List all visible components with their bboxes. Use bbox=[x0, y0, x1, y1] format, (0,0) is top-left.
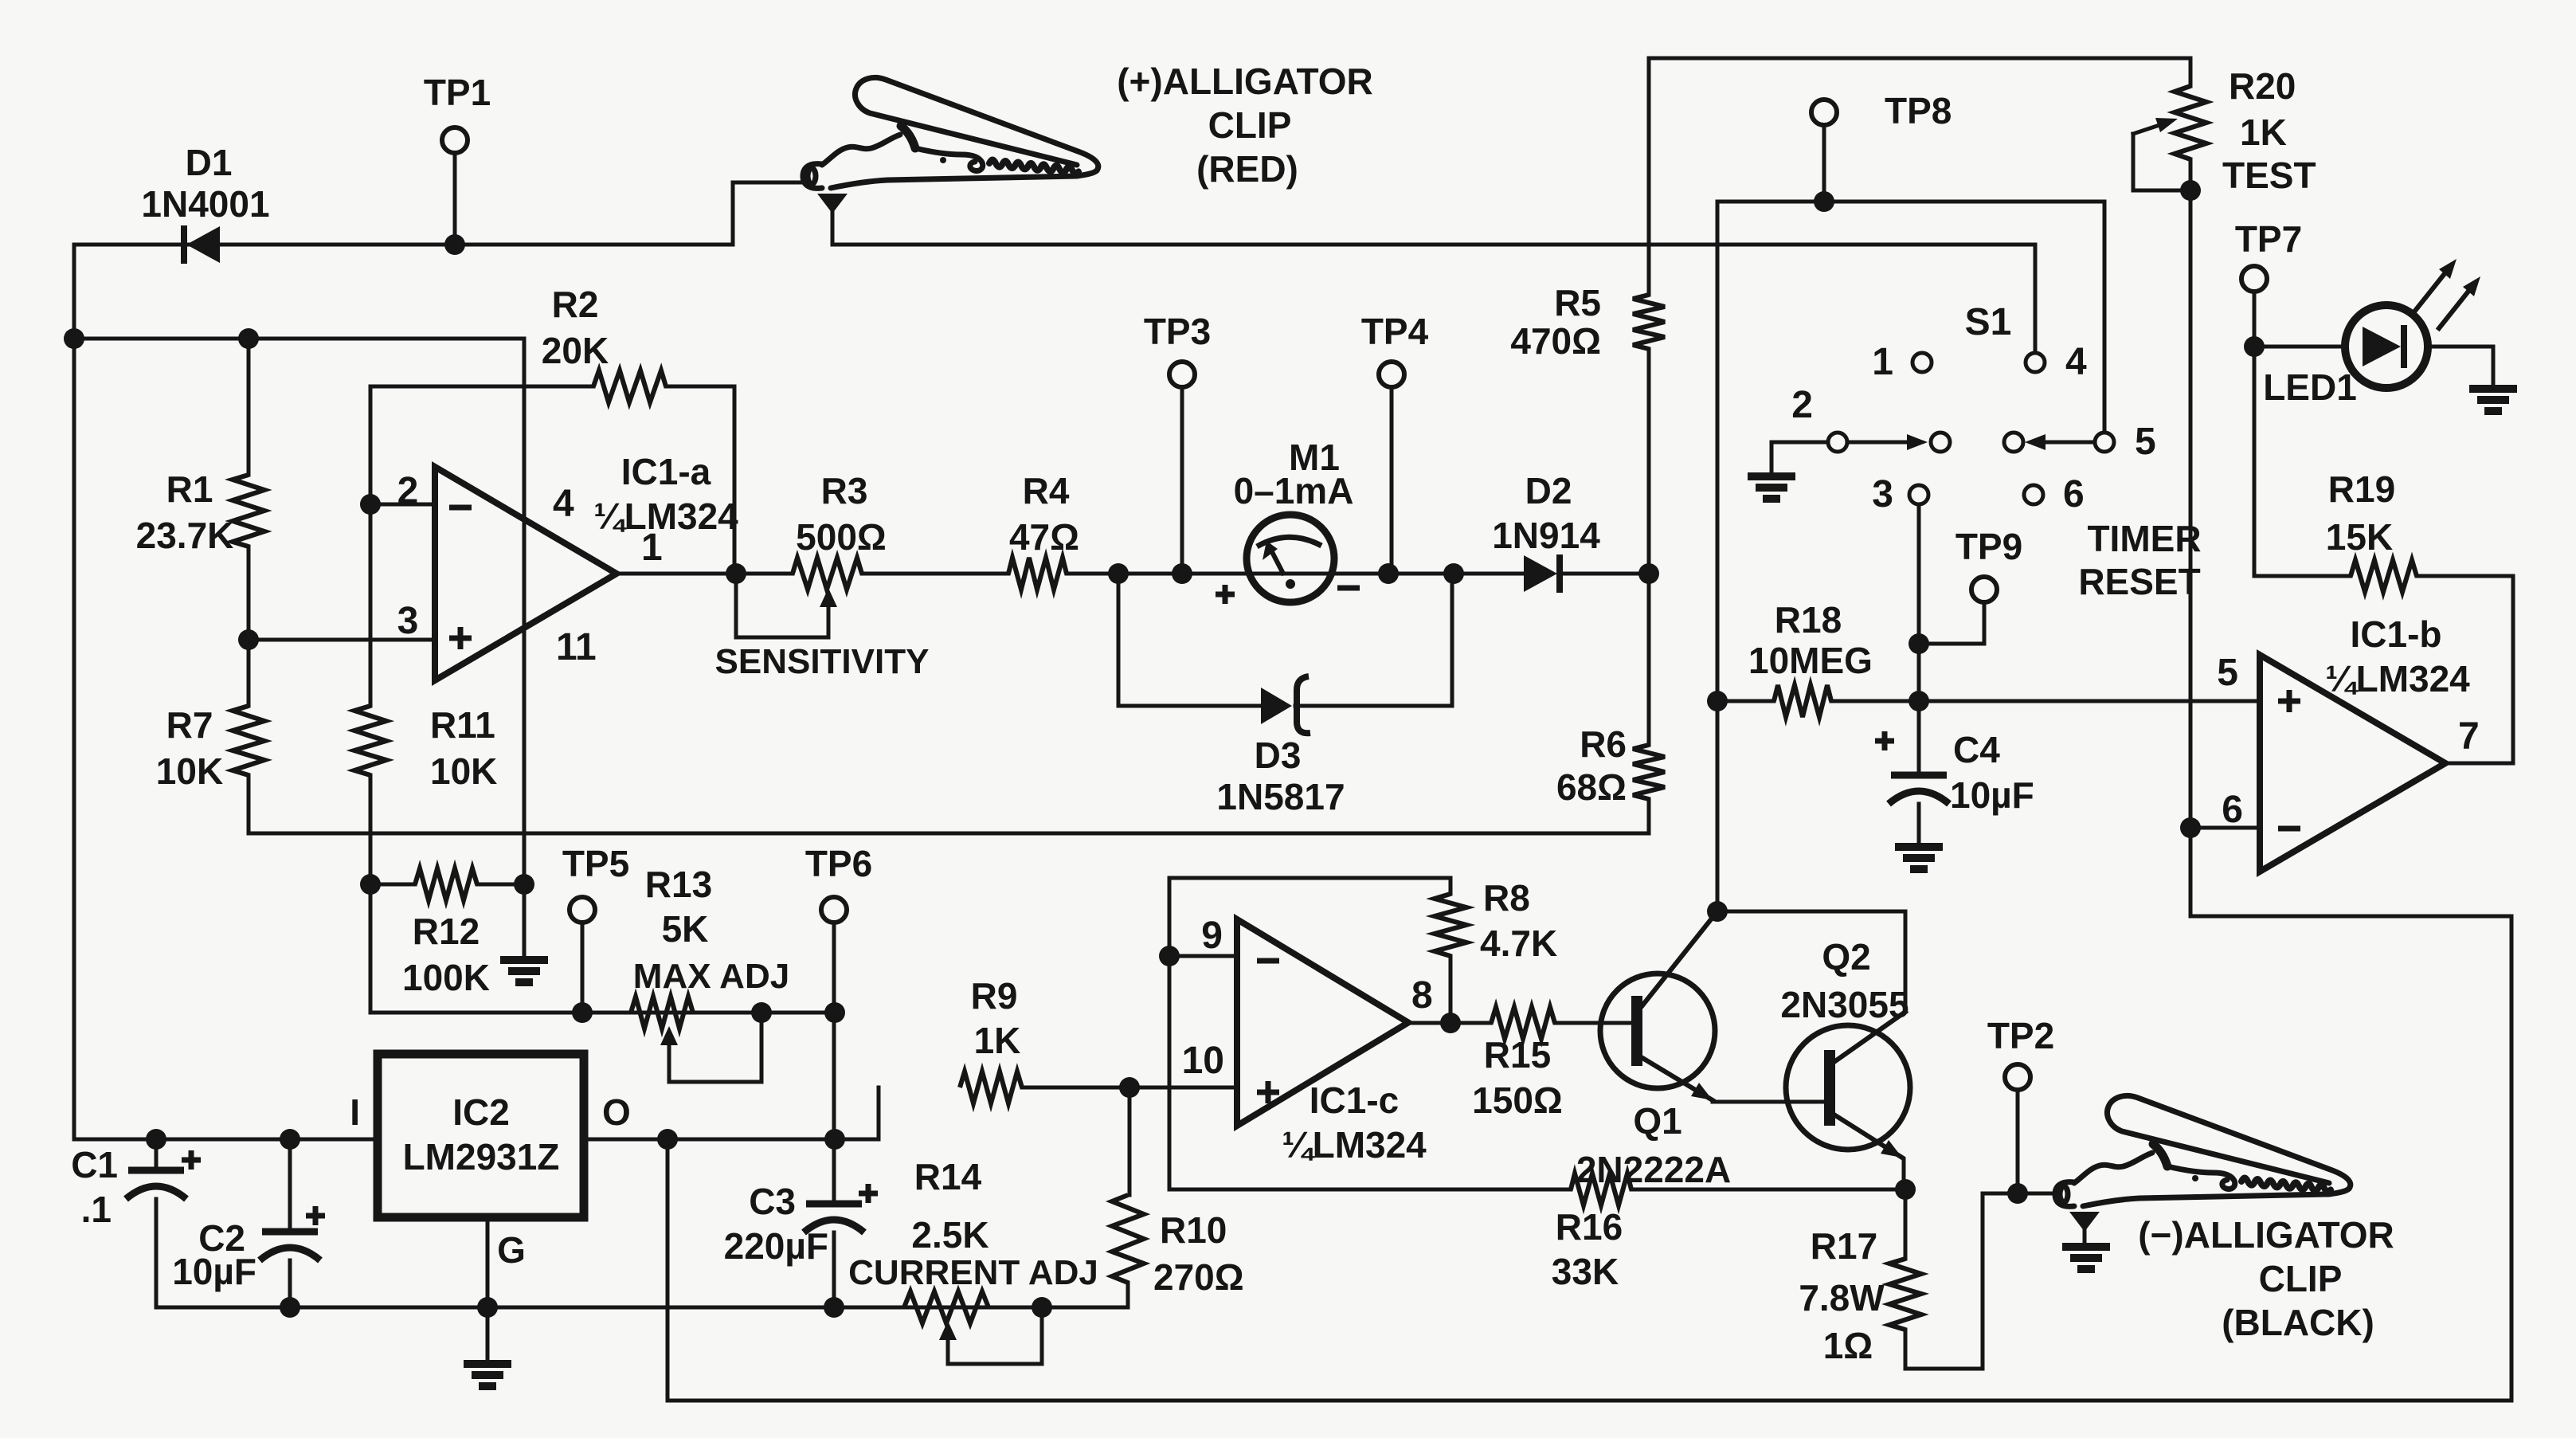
switch S1 contact 2 bbox=[1828, 433, 1847, 452]
svg-text:IC2: IC2 bbox=[452, 1091, 510, 1133]
svg-text:23.7K: 23.7K bbox=[136, 515, 234, 556]
wire TP9 lead bbox=[1919, 602, 1984, 644]
resistor R5 bbox=[1633, 295, 1665, 349]
wire IC2 output bbox=[584, 1087, 879, 1139]
resistor R15 bbox=[1491, 1007, 1555, 1039]
junction Q1 Q2 collectors bbox=[1707, 901, 1728, 922]
svg-text:100K: 100K bbox=[402, 957, 490, 998]
svg-text:S1: S1 bbox=[1965, 301, 2012, 343]
junction C3 bottom bbox=[824, 1297, 844, 1318]
wire TP2 row to clip bbox=[1983, 1192, 2057, 1196]
svg-text:7.8W: 7.8W bbox=[1799, 1277, 1885, 1318]
IC1-b inverting mark bbox=[2278, 826, 2300, 832]
svg-text:270Ω: 270Ω bbox=[1153, 1256, 1244, 1298]
resistor R2 bbox=[593, 370, 666, 402]
resistor R16 bbox=[1571, 1174, 1631, 1205]
svg-text:TP3: TP3 bbox=[1144, 311, 1211, 352]
wire R11 to R12 row bbox=[369, 775, 373, 1013]
svg-text:C1: C1 bbox=[71, 1144, 118, 1185]
svg-text:IC1-c: IC1-c bbox=[1310, 1079, 1399, 1121]
wire R10 bottom bbox=[1126, 1283, 1130, 1307]
wire S1 arm 5 bbox=[2039, 441, 2094, 445]
svg-text:R19: R19 bbox=[2328, 468, 2395, 510]
junction pin9 node bbox=[1159, 946, 1180, 966]
junction TP8 node bbox=[1814, 191, 1834, 212]
junction Q2 emitter R16 R17 bbox=[1895, 1179, 1916, 1200]
svg-text:CURRENT ADJ: CURRENT ADJ bbox=[848, 1253, 1098, 1292]
wire R13 wiper loop bbox=[669, 1013, 761, 1082]
wire R12 left bbox=[370, 883, 415, 887]
wire R14 wiper stem bbox=[946, 1340, 950, 1364]
wire clip to ground bbox=[2083, 1227, 2087, 1247]
junction TP2 node bbox=[2007, 1183, 2028, 1204]
wire R1 to R7 bbox=[247, 547, 251, 706]
C1 plus bbox=[182, 1150, 201, 1170]
resistor R4 bbox=[1008, 558, 1067, 590]
svg-text:10µF: 10µF bbox=[1950, 774, 2034, 816]
svg-text:R6: R6 bbox=[1580, 723, 1627, 765]
svg-text:TP5: TP5 bbox=[562, 843, 629, 884]
svg-text:R14: R14 bbox=[914, 1156, 982, 1197]
IC1-c non-inverting mark bbox=[1257, 1081, 1279, 1103]
wire top supply rail left bbox=[74, 182, 801, 245]
wire ground rail bbox=[156, 1306, 1128, 1310]
junction R13 wiper bbox=[751, 1002, 772, 1023]
wire C1 bottom lead bbox=[155, 1199, 159, 1307]
Q2 emitter arrow bbox=[1881, 1140, 1902, 1158]
svg-text:9: 9 bbox=[1201, 915, 1223, 957]
junction MAX ADJ to TP6 line bbox=[824, 1002, 845, 1023]
wire R18 to IC1-b pin5 bbox=[1831, 699, 2260, 703]
test point TP2 bbox=[2005, 1064, 2030, 1090]
capacitor C3 bbox=[804, 1204, 864, 1232]
svg-text:150Ω: 150Ω bbox=[1472, 1079, 1563, 1121]
svg-text:R2: R2 bbox=[552, 284, 599, 325]
R20 wiper arrowhead bbox=[2155, 118, 2178, 132]
wire R20 wiper loop bbox=[2133, 134, 2190, 190]
svg-text:8: 8 bbox=[1411, 974, 1433, 1017]
switch S1 contact 5 bbox=[2095, 433, 2114, 452]
diode D3 (schottky) bbox=[1261, 688, 1292, 724]
wire top rail to S1 pin 4 bbox=[832, 245, 2035, 352]
wire R17 top bbox=[1904, 1189, 1908, 1259]
wire to R1 bbox=[247, 339, 251, 475]
wire V+ rail / pin4-11 line bbox=[74, 339, 524, 956]
junction left rail bbox=[64, 328, 84, 349]
wire R16 to Q2 emitter bbox=[1631, 1188, 1905, 1192]
svg-text:4.7K: 4.7K bbox=[1480, 923, 1557, 964]
svg-text:1N914: 1N914 bbox=[1492, 515, 1600, 556]
LED arrowhead 1 bbox=[2439, 259, 2457, 279]
wire R3 wiper stem bbox=[827, 607, 831, 637]
svg-text:47Ω: 47Ω bbox=[1009, 516, 1079, 558]
wire R20 bottom lead bbox=[2189, 159, 2193, 190]
svg-text:RESET: RESET bbox=[2078, 561, 2200, 602]
svg-text:33K: 33K bbox=[1552, 1251, 1619, 1292]
wire R4 to D2 bbox=[1067, 572, 1524, 576]
potentiometer R20 bbox=[2175, 86, 2206, 159]
wire TP3 lead bbox=[1180, 387, 1184, 574]
svg-text:1N4001: 1N4001 bbox=[141, 183, 269, 225]
wire IC1-c feedback top bbox=[1169, 878, 1450, 956]
wire D3 loop left bbox=[1118, 574, 1261, 706]
transistor Q2 bbox=[1786, 1025, 1910, 1150]
wire R3 to R4 bbox=[862, 572, 1008, 576]
svg-text:10µF: 10µF bbox=[172, 1251, 256, 1292]
wire R14 wiper loop bbox=[948, 1307, 1042, 1364]
wire pin9 down to R16 row bbox=[1168, 956, 1172, 1189]
wire S1 pin3 down to C4 bbox=[1917, 505, 1921, 775]
svg-text:TP2: TP2 bbox=[1987, 1015, 2054, 1056]
wire S1 pin2 to ground bbox=[1771, 442, 1827, 476]
diode D2 bbox=[1524, 555, 1557, 592]
svg-text:1K: 1K bbox=[2240, 112, 2287, 153]
C4 plus bbox=[1875, 731, 1894, 750]
svg-text:R16: R16 bbox=[1556, 1206, 1623, 1248]
svg-text:11: 11 bbox=[556, 626, 597, 668]
R14 wiper arrow bbox=[939, 1321, 957, 1340]
junction pin6 node bbox=[2180, 817, 2201, 838]
wire IC1-c output bbox=[1408, 1021, 1491, 1025]
test point TP9 bbox=[1971, 577, 1997, 602]
svg-text:6: 6 bbox=[2063, 473, 2085, 515]
junction D3 right bbox=[1443, 563, 1464, 584]
wire Q2 collector to junction bbox=[1717, 911, 1905, 1012]
wire R18 left bbox=[1717, 699, 1774, 703]
svg-text:IC1-a: IC1-a bbox=[621, 451, 711, 492]
test point TP5 bbox=[570, 897, 595, 923]
junction pin3 node bbox=[238, 629, 259, 650]
svg-text:(+)ALLIGATOR: (+)ALLIGATOR bbox=[1117, 61, 1373, 102]
wire feedback right bbox=[666, 386, 734, 574]
svg-text:10K: 10K bbox=[156, 750, 223, 792]
wire long vertical to Q1 collector bbox=[1716, 202, 1720, 911]
resistor R10 bbox=[1112, 1195, 1144, 1283]
svg-text:R17: R17 bbox=[1811, 1225, 1877, 1267]
wire feedback left bbox=[370, 385, 593, 389]
junction R1 top bbox=[238, 328, 259, 349]
junction R18 C4 node bbox=[1909, 691, 1929, 711]
wire op-amp output bbox=[617, 572, 793, 576]
svg-text:10MEG: 10MEG bbox=[1748, 640, 1873, 681]
svg-text:R1: R1 bbox=[166, 468, 213, 510]
svg-text:LED1: LED1 bbox=[2263, 366, 2357, 408]
switch S1 pole right bbox=[2004, 433, 2023, 452]
test point TP8 bbox=[1811, 100, 1837, 125]
svg-text:R8: R8 bbox=[1483, 877, 1530, 919]
svg-text:TEST: TEST bbox=[2222, 155, 2316, 196]
wire R16 left bbox=[1169, 1188, 1571, 1192]
wire D3 loop right bbox=[1295, 574, 1452, 706]
junction R20 wiper node bbox=[2180, 180, 2201, 201]
wire TP8 row bbox=[1717, 202, 2104, 430]
svg-text:R4: R4 bbox=[1023, 470, 1070, 511]
resistor R12 bbox=[415, 868, 477, 900]
wire Q2 emitter bbox=[1835, 1115, 1902, 1158]
junction R3 node bbox=[726, 563, 746, 584]
svg-text:2.5K: 2.5K bbox=[911, 1214, 989, 1256]
wire top right feed to R20 bbox=[1649, 58, 2190, 86]
wire C4 to ground bbox=[1917, 804, 1921, 847]
IC1-c inverting mark bbox=[1257, 958, 1279, 964]
meter minus bbox=[1337, 586, 1360, 591]
wire TP5 lead bbox=[581, 924, 585, 1013]
ground C4 bbox=[1895, 847, 1943, 869]
wire Q1 collector bbox=[1642, 911, 1717, 1005]
wire pin3 to op-amp bbox=[249, 638, 435, 642]
svg-text:R7: R7 bbox=[166, 704, 213, 746]
wire R3 wiper loop bbox=[736, 574, 828, 637]
svg-text:(BLACK): (BLACK) bbox=[2222, 1302, 2374, 1343]
wire pin2 to op-amp bbox=[370, 503, 435, 507]
svg-text:4: 4 bbox=[553, 483, 574, 525]
svg-text:TP6: TP6 bbox=[805, 843, 872, 884]
svg-text:10K: 10K bbox=[430, 750, 497, 792]
svg-text:(RED): (RED) bbox=[1196, 148, 1298, 190]
svg-text:1Ω: 1Ω bbox=[1823, 1325, 1873, 1366]
transistor Q1 bbox=[1600, 974, 1715, 1088]
svg-text:R12: R12 bbox=[413, 911, 480, 952]
svg-text:R13: R13 bbox=[645, 864, 712, 905]
svg-text:.1: .1 bbox=[81, 1189, 112, 1230]
switch S1 contact 1 bbox=[1912, 353, 1932, 372]
svg-text:20K: 20K bbox=[542, 330, 609, 371]
svg-text:2N2222A: 2N2222A bbox=[1576, 1149, 1731, 1190]
meter plus bbox=[1216, 585, 1235, 604]
junction C2 top bbox=[280, 1129, 300, 1150]
capacitor C1 bbox=[126, 1170, 186, 1199]
svg-text:G: G bbox=[497, 1229, 526, 1271]
svg-text:R5: R5 bbox=[1554, 282, 1601, 323]
wire R17 bottom loop bbox=[1905, 1193, 1983, 1369]
ground op-amp V- bbox=[500, 960, 548, 982]
switch S1 contact 6 bbox=[2024, 485, 2043, 504]
svg-text:TP4: TP4 bbox=[1361, 311, 1429, 352]
svg-text:R11: R11 bbox=[430, 704, 495, 746]
LED arrow 2 bbox=[2439, 285, 2473, 328]
resistor R11 bbox=[354, 706, 386, 775]
regulator IC2 box bbox=[378, 1054, 584, 1217]
wire to LED1 bbox=[2254, 345, 2345, 349]
IC1-a non-inverting mark bbox=[449, 627, 472, 649]
svg-text:500Ω: 500Ω bbox=[796, 516, 887, 558]
junction pin2 node bbox=[360, 494, 381, 515]
wire LED1 to ground bbox=[2428, 347, 2493, 389]
svg-text:15K: 15K bbox=[2326, 516, 2393, 558]
svg-text:O: O bbox=[602, 1091, 631, 1133]
switch S1 contact 3 bbox=[1909, 485, 1928, 504]
ground S1 pin2 bbox=[1748, 476, 1795, 499]
wire Q1 emitter to Q2 base bbox=[1713, 1100, 1824, 1104]
wire pin2 vertical bbox=[369, 386, 373, 706]
wire lower sense rail bbox=[249, 775, 1649, 833]
wire R12 right bbox=[477, 883, 524, 887]
svg-text:C3: C3 bbox=[749, 1181, 796, 1222]
test point TP6 bbox=[821, 897, 847, 923]
svg-text:I: I bbox=[350, 1091, 360, 1133]
capacitor C4 bbox=[1889, 775, 1949, 804]
wire R15 to Q1 base bbox=[1555, 1021, 1631, 1025]
wire C1 top lead bbox=[155, 1139, 159, 1170]
svg-text:1: 1 bbox=[1872, 341, 1893, 383]
svg-text:D2: D2 bbox=[1525, 470, 1572, 511]
wire MAX ADJ row bbox=[370, 1011, 835, 1015]
wire clip to rail bbox=[831, 209, 835, 245]
potentiometer R14 bbox=[904, 1291, 989, 1323]
wire IC1-b output to R19 bbox=[2445, 576, 2513, 763]
junction TP3 node bbox=[1172, 563, 1192, 584]
svg-text:1K: 1K bbox=[974, 1020, 1021, 1061]
wire TP1 lead bbox=[453, 153, 457, 245]
wire R9 to pin10 bbox=[1022, 1086, 1237, 1090]
svg-text:¼LM324: ¼LM324 bbox=[593, 496, 738, 537]
svg-text:C4: C4 bbox=[1953, 729, 2000, 770]
svg-text:R9: R9 bbox=[971, 975, 1018, 1017]
svg-text:¼LM324: ¼LM324 bbox=[2325, 658, 2470, 699]
svg-text:(−)ALLIGATOR: (−)ALLIGATOR bbox=[2138, 1214, 2394, 1256]
Q1 emitter arrow bbox=[1691, 1083, 1713, 1100]
wire R20 node down to bottom rail bbox=[2190, 190, 2511, 1401]
svg-text:IC1-b: IC1-b bbox=[2351, 613, 2442, 655]
wire TP4 lead bbox=[1390, 387, 1394, 574]
wire C2 top lead bbox=[288, 1139, 292, 1232]
svg-text:3: 3 bbox=[397, 600, 419, 642]
wire pin9 to op-amp bbox=[1169, 954, 1237, 958]
resistor R1 bbox=[233, 475, 264, 547]
junction D2 R5 R6 bbox=[1638, 563, 1659, 584]
LED arrowhead 2 bbox=[2463, 276, 2480, 296]
LED arrow 1 bbox=[2415, 268, 2449, 311]
IC1-b non-inverting mark bbox=[2278, 690, 2300, 712]
junction TP9 node bbox=[1909, 633, 1929, 654]
junction D3 left bbox=[1108, 563, 1129, 584]
svg-text:2: 2 bbox=[397, 470, 419, 512]
ground black clip bbox=[2062, 1247, 2110, 1269]
wire IC2 ground pin bbox=[486, 1217, 490, 1364]
svg-text:1N5817: 1N5817 bbox=[1216, 776, 1345, 817]
wire Q2 emitter down bbox=[1902, 1159, 1906, 1189]
junction pin8 node bbox=[1440, 1013, 1461, 1033]
resistor R17 bbox=[1889, 1259, 1921, 1330]
svg-text:CLIP: CLIP bbox=[1208, 104, 1292, 146]
diode D1 bbox=[186, 226, 220, 263]
wire Q1 emitter bbox=[1642, 1058, 1713, 1100]
svg-text:7: 7 bbox=[2458, 715, 2480, 758]
test point TP7 bbox=[2241, 266, 2267, 292]
svg-text:¼LM324: ¼LM324 bbox=[1282, 1124, 1427, 1166]
svg-text:TP9: TP9 bbox=[1955, 526, 2022, 567]
svg-text:R10: R10 bbox=[1160, 1209, 1227, 1251]
svg-text:0–1mA: 0–1mA bbox=[1234, 470, 1354, 511]
svg-text:R20: R20 bbox=[2229, 65, 2296, 107]
svg-text:470Ω: 470Ω bbox=[1510, 320, 1601, 362]
LED LED1 bbox=[2345, 305, 2428, 388]
IC1-a inverting mark bbox=[449, 505, 472, 511]
svg-text:2: 2 bbox=[1791, 384, 1813, 426]
svg-text:4: 4 bbox=[2065, 341, 2087, 383]
svg-text:10: 10 bbox=[1182, 1040, 1224, 1082]
junction LED node bbox=[2244, 336, 2265, 357]
C2 plus bbox=[306, 1206, 325, 1225]
svg-text:2N3055: 2N3055 bbox=[1780, 984, 1909, 1025]
op-amp IC1-a bbox=[435, 467, 617, 680]
svg-text:Q1: Q1 bbox=[1633, 1100, 1681, 1142]
op-amp IC1-b bbox=[2260, 655, 2445, 872]
R3 wiper arrow bbox=[820, 588, 837, 607]
resistor R19 bbox=[2351, 560, 2417, 592]
junction R12 left bbox=[360, 874, 381, 895]
alligator clip positive (red) bbox=[803, 77, 1098, 188]
svg-text:5K: 5K bbox=[662, 908, 709, 950]
wire TP8 lead bbox=[1822, 125, 1826, 202]
wire R13 wiper stem bbox=[667, 1045, 671, 1082]
svg-text:R3: R3 bbox=[821, 470, 868, 511]
wire Q2 collector bbox=[1835, 1012, 1905, 1061]
junction TP1 on rail bbox=[444, 234, 465, 255]
test point TP4 bbox=[1379, 362, 1404, 387]
resistor R9 bbox=[960, 1072, 1022, 1103]
wire TP7 to R19 bbox=[2253, 292, 2257, 576]
wire C3 bottom lead bbox=[832, 1232, 836, 1307]
resistor R7 bbox=[233, 706, 264, 775]
junction R12 right bbox=[514, 874, 534, 895]
svg-text:SENSITIVITY: SENSITIVITY bbox=[715, 642, 930, 681]
wire R19 right bbox=[2417, 574, 2513, 578]
junction output to bottom rail bbox=[657, 1129, 678, 1150]
svg-text:5: 5 bbox=[2217, 652, 2238, 694]
svg-text:TP7: TP7 bbox=[2235, 218, 2302, 260]
svg-text:TIMER: TIMER bbox=[2087, 518, 2201, 559]
svg-text:TP1: TP1 bbox=[424, 72, 491, 113]
svg-text:6: 6 bbox=[2222, 789, 2243, 831]
wire C2 bottom lead bbox=[288, 1260, 292, 1307]
junction C2 bottom bbox=[280, 1297, 300, 1318]
svg-text:68Ω: 68Ω bbox=[1556, 766, 1627, 808]
potentiometer R3 bbox=[793, 558, 862, 590]
junction pin10 R10 node bbox=[1119, 1077, 1140, 1098]
svg-text:3: 3 bbox=[1872, 473, 1893, 515]
wire TP6 vertical bbox=[832, 924, 836, 1204]
C3 plus bbox=[859, 1184, 878, 1203]
op-amp IC1-c bbox=[1237, 919, 1408, 1126]
junction R18 to long vertical bbox=[1707, 691, 1728, 711]
svg-text:CLIP: CLIP bbox=[2259, 1258, 2343, 1299]
svg-text:R15: R15 bbox=[1484, 1034, 1551, 1076]
svg-text:220µF: 220µF bbox=[724, 1225, 828, 1267]
switch S1 contact 4 bbox=[2026, 353, 2045, 372]
wire S1 arm 2 bbox=[1848, 441, 1912, 445]
wire TP2 lead bbox=[2016, 1090, 2020, 1193]
resistor R18 bbox=[1774, 685, 1831, 717]
test point TP1 bbox=[442, 127, 468, 153]
ground IC2 bbox=[464, 1364, 511, 1386]
svg-text:Q2: Q2 bbox=[1822, 936, 1870, 978]
capacitor C2 bbox=[260, 1232, 320, 1260]
wire R5 to R6 bbox=[1647, 349, 1651, 745]
junction TP5 node bbox=[572, 1002, 593, 1023]
junction TP4 node bbox=[1378, 563, 1399, 584]
wire R19 left bbox=[2256, 574, 2351, 578]
wire output down to bottom rail bbox=[666, 1139, 670, 1401]
wire R8 bottom bbox=[1449, 956, 1453, 1023]
junction R14 wiper bbox=[1032, 1297, 1052, 1318]
wire R10 top bbox=[1128, 1087, 1132, 1195]
svg-text:MAX ADJ: MAX ADJ bbox=[633, 957, 789, 996]
potentiometer R13 bbox=[631, 997, 693, 1029]
wire R5 top bbox=[1647, 58, 1651, 295]
test point TP3 bbox=[1169, 362, 1195, 387]
resistor R8 bbox=[1435, 894, 1466, 956]
